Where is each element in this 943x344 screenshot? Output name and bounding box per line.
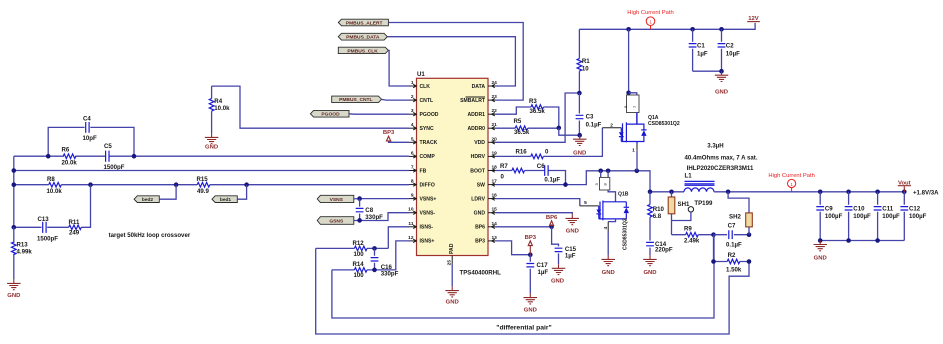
svg-text:R6: R6 bbox=[62, 147, 70, 154]
svg-text:0.1µF: 0.1µF bbox=[586, 121, 602, 128]
svg-text:1: 1 bbox=[649, 20, 652, 25]
svg-text:40.4mOhms max, 7 A sat.: 40.4mOhms max, 7 A sat. bbox=[684, 155, 757, 162]
svg-text:C2: C2 bbox=[726, 42, 734, 49]
transistor Q1B CSD85301Q2 bbox=[580, 205, 599, 207]
capacitor C13 bbox=[43, 222, 46, 233]
svg-text:4.99k: 4.99k bbox=[17, 248, 33, 255]
svg-text:R1: R1 bbox=[582, 58, 590, 65]
svg-text:12: 12 bbox=[408, 235, 414, 241]
svg-text:BP6: BP6 bbox=[546, 215, 558, 221]
wire SW to L1 bbox=[650, 191, 684, 193]
wire (FB line pin 7) bbox=[14, 170, 409, 172]
svg-text:9: 9 bbox=[411, 193, 414, 199]
svg-text:GND: GND bbox=[602, 270, 615, 276]
svg-text:100µF: 100µF bbox=[909, 213, 927, 220]
svg-text:18: 18 bbox=[492, 165, 498, 171]
wire PGOOD bbox=[349, 113, 409, 115]
resistor R3 bbox=[531, 105, 544, 110]
svg-text:330pF: 330pF bbox=[365, 214, 383, 221]
svg-text:ADDR1: ADDR1 bbox=[467, 112, 485, 118]
svg-text:4: 4 bbox=[411, 122, 414, 128]
high current path flag (12V) bbox=[646, 17, 655, 26]
svg-text:PMBUS_CLK: PMBUS_CLK bbox=[347, 48, 378, 54]
wire ADDR0 bbox=[496, 127, 559, 129]
wire VSNS to pin 9 bbox=[354, 198, 409, 200]
wire VDD bbox=[496, 93, 580, 142]
capacitor C4 branch bbox=[48, 127, 134, 156]
svg-text:5: 5 bbox=[584, 200, 587, 206]
resistor R15 bbox=[197, 182, 210, 187]
ground (output caps) bbox=[814, 241, 828, 251]
power port BP3 (pin13) bbox=[529, 246, 531, 255]
svg-text:C10: C10 bbox=[853, 205, 865, 212]
svg-text:10: 10 bbox=[582, 66, 589, 73]
svg-text:10pF: 10pF bbox=[83, 135, 98, 142]
inductor L1 bbox=[684, 188, 714, 192]
capacitor C10 bbox=[846, 190, 851, 195]
svg-text:1.50k: 1.50k bbox=[726, 267, 742, 274]
svg-text:16: 16 bbox=[492, 193, 498, 199]
shunt SH2 bbox=[728, 192, 749, 213]
svg-text:R11: R11 bbox=[69, 219, 80, 226]
svg-text:VSNS-: VSNS- bbox=[420, 211, 436, 217]
svg-text:R13: R13 bbox=[17, 241, 29, 248]
wire (DIFFO line pin 8) bbox=[14, 184, 409, 186]
svg-text:1: 1 bbox=[632, 148, 635, 154]
ground (C1/C2) bbox=[715, 71, 729, 81]
capacitor C5 bbox=[106, 151, 109, 162]
svg-text:19: 19 bbox=[492, 150, 498, 156]
svg-text:GND: GND bbox=[446, 300, 459, 306]
power port BP6 bbox=[550, 221, 554, 226]
svg-text:PMBUS_ALERT: PMBUS_ALERT bbox=[346, 20, 383, 26]
resistor R7 0 ohm bbox=[512, 168, 525, 173]
capacitor C2 bbox=[721, 29, 723, 71]
transistor Q1B package pins 3,8 bbox=[598, 169, 603, 174]
svg-text:100µF: 100µF bbox=[882, 213, 900, 220]
resistor R14 bbox=[354, 268, 367, 273]
svg-text:bed2: bed2 bbox=[142, 197, 154, 203]
svg-text:R12: R12 bbox=[353, 240, 365, 247]
wire ISNS- to R12 line bbox=[388, 227, 409, 249]
svg-text:5: 5 bbox=[411, 136, 414, 142]
resistor R1 bbox=[578, 29, 580, 93]
svg-text:C4: C4 bbox=[83, 115, 91, 122]
ground (PAD) bbox=[445, 287, 459, 297]
wire pin15 GND bbox=[496, 213, 573, 215]
capacitor C7 bbox=[714, 234, 750, 236]
wire L1 to output bbox=[714, 191, 904, 193]
svg-text:R14: R14 bbox=[353, 261, 365, 268]
svg-text:13: 13 bbox=[492, 235, 498, 241]
svg-text:SH1: SH1 bbox=[678, 201, 690, 208]
port GSNS bbox=[317, 217, 354, 225]
port PMBUS_CNTL bbox=[332, 96, 382, 103]
port PMBUS_CLK bbox=[338, 47, 388, 53]
svg-text:4: 4 bbox=[603, 227, 609, 230]
wire PMBUS_DATA to DATA bbox=[387, 37, 515, 86]
wire ISNS+ to R14 line bbox=[375, 241, 410, 270]
svg-text:100: 100 bbox=[354, 272, 365, 279]
ground (pin 15) bbox=[566, 214, 580, 224]
svg-text:High Current Path: High Current Path bbox=[768, 173, 814, 179]
svg-text:R8: R8 bbox=[47, 176, 55, 183]
svg-text:20: 20 bbox=[492, 136, 498, 142]
svg-text:Q1B: Q1B bbox=[618, 191, 629, 197]
wire SYNC bbox=[212, 86, 409, 128]
svg-text:ISNS-: ISNS- bbox=[420, 225, 434, 231]
svg-text:GND: GND bbox=[566, 228, 579, 234]
svg-text:BP3: BP3 bbox=[383, 130, 395, 136]
ground (R13) bbox=[7, 279, 21, 289]
resistor R5 bbox=[515, 126, 528, 131]
net label Vout bbox=[903, 186, 905, 192]
svg-text:1µF: 1µF bbox=[697, 51, 708, 58]
wire (COMP line to pin 6) bbox=[14, 155, 409, 157]
svg-text:7: 7 bbox=[411, 165, 414, 171]
svg-text:High Current Path: High Current Path bbox=[627, 10, 673, 16]
svg-text:GND: GND bbox=[814, 255, 827, 261]
svg-text:15: 15 bbox=[492, 207, 498, 213]
svg-text:target 50kHz loop crossover: target 50kHz loop crossover bbox=[109, 232, 191, 239]
capacitor C14 bbox=[646, 242, 654, 245]
svg-text:2.49k: 2.49k bbox=[684, 237, 700, 244]
wire differential pair outer bbox=[316, 248, 749, 334]
svg-text:220pF: 220pF bbox=[655, 247, 673, 254]
svg-text:ISNS+: ISNS+ bbox=[420, 239, 435, 245]
capacitor C15 bbox=[552, 227, 559, 264]
wire LDRV bbox=[496, 199, 580, 206]
svg-text:R3: R3 bbox=[529, 98, 537, 105]
capacitor C9 bbox=[818, 190, 823, 195]
svg-text:LDRV: LDRV bbox=[471, 196, 485, 202]
transistor Q1A CSD85301Q2 bbox=[602, 127, 621, 129]
svg-text:ADDR0: ADDR0 bbox=[467, 126, 485, 132]
ground (C3) bbox=[573, 135, 587, 145]
svg-text:bed1: bed1 bbox=[220, 197, 232, 203]
svg-text:+1.8V/3A: +1.8V/3A bbox=[913, 190, 939, 197]
resistor R8 bbox=[49, 182, 62, 187]
svg-text:DIFFO: DIFFO bbox=[420, 182, 435, 188]
svg-text:VSNS+: VSNS+ bbox=[420, 196, 437, 202]
svg-text:BP3: BP3 bbox=[525, 235, 537, 241]
svg-text:PMBUS_DATA: PMBUS_DATA bbox=[346, 35, 380, 41]
capacitor C17 bbox=[529, 255, 531, 294]
svg-text:1500pF: 1500pF bbox=[37, 236, 58, 243]
resistor R6 bbox=[63, 154, 76, 159]
svg-text:GND: GND bbox=[524, 307, 537, 313]
svg-text:0: 0 bbox=[501, 174, 505, 181]
svg-text:VDD: VDD bbox=[474, 140, 485, 146]
svg-text:1µF: 1µF bbox=[565, 252, 576, 259]
svg-text:SW: SW bbox=[477, 182, 485, 188]
port PMBUS_DATA bbox=[338, 33, 387, 40]
resistor R10 bbox=[649, 192, 651, 241]
svg-text:GND: GND bbox=[7, 293, 20, 299]
port VSNS bbox=[317, 195, 354, 202]
port PMBUS_ALERT bbox=[338, 19, 388, 26]
wire TRACK bbox=[389, 141, 409, 142]
svg-text:0.1µF: 0.1µF bbox=[544, 177, 560, 184]
port PGOOD bbox=[310, 110, 349, 117]
svg-text:C5: C5 bbox=[104, 143, 112, 150]
wire HDRV bbox=[496, 128, 603, 157]
svg-text:PMBUS_CNTL: PMBUS_CNTL bbox=[339, 97, 372, 103]
svg-text:R10: R10 bbox=[653, 206, 665, 213]
svg-text:L1: L1 bbox=[685, 173, 693, 180]
svg-text:49.9: 49.9 bbox=[197, 188, 209, 195]
svg-text:2: 2 bbox=[610, 122, 613, 128]
svg-text:GND: GND bbox=[474, 211, 486, 217]
svg-text:20.0k: 20.0k bbox=[62, 160, 78, 167]
svg-text:HDRV: HDRV bbox=[471, 154, 486, 160]
svg-text:GND: GND bbox=[551, 278, 564, 284]
capacitor C1 bbox=[692, 29, 694, 71]
wire (COMP net vertical bus) bbox=[13, 156, 15, 227]
svg-text:PGOOD: PGOOD bbox=[321, 112, 340, 118]
test point TP199 bbox=[688, 207, 693, 212]
capacitor C11 bbox=[875, 190, 880, 195]
svg-text:BP3: BP3 bbox=[475, 239, 485, 245]
svg-text:COMP: COMP bbox=[420, 154, 436, 160]
svg-text:TRACK: TRACK bbox=[420, 140, 438, 146]
node bed2 port bbox=[134, 196, 159, 203]
ground (Q1B source) bbox=[602, 255, 616, 265]
svg-text:C17: C17 bbox=[537, 262, 549, 269]
svg-text:U1: U1 bbox=[417, 71, 425, 78]
svg-text:IHLP2020CZER3R3M11: IHLP2020CZER3R3M11 bbox=[687, 165, 754, 172]
resistor R4 bbox=[211, 86, 213, 133]
svg-text:FB: FB bbox=[420, 168, 427, 174]
svg-text:R9: R9 bbox=[684, 226, 692, 233]
svg-text:100µF: 100µF bbox=[825, 213, 843, 220]
svg-text:11: 11 bbox=[408, 221, 413, 227]
svg-text:100: 100 bbox=[354, 251, 365, 258]
wire GSNS to pin 10 bbox=[354, 213, 409, 221]
resistor R9 bbox=[672, 234, 714, 236]
svg-text:C9: C9 bbox=[825, 205, 833, 212]
high current path flag (Vout) bbox=[788, 179, 796, 187]
svg-text:TPS40400RHL: TPS40400RHL bbox=[460, 270, 502, 277]
wire 12V rail bbox=[579, 23, 755, 29]
svg-text:36.5k: 36.5k bbox=[530, 108, 546, 115]
wire BOOT bbox=[496, 171, 566, 185]
svg-text:C6: C6 bbox=[537, 163, 545, 170]
resistor R12 bbox=[354, 246, 367, 251]
svg-text:CSD85301Q2: CSD85301Q2 bbox=[648, 121, 680, 127]
capacitor C16 bbox=[374, 248, 376, 270]
resistor R13 bbox=[13, 227, 15, 279]
op-amp U1 TPS40400RHL controller IC bbox=[417, 78, 489, 255]
svg-text:R16: R16 bbox=[516, 149, 528, 156]
svg-text:GND: GND bbox=[643, 270, 656, 276]
svg-text:TP199: TP199 bbox=[694, 200, 713, 207]
svg-text:0: 0 bbox=[545, 148, 549, 155]
svg-text:R7: R7 bbox=[500, 163, 508, 170]
svg-text:8: 8 bbox=[411, 179, 414, 185]
svg-text:249: 249 bbox=[69, 229, 80, 236]
wire BP3 pin13 bbox=[496, 241, 531, 255]
svg-text:1µF: 1µF bbox=[538, 269, 549, 276]
wire BP6 bbox=[496, 226, 552, 228]
svg-text:C8: C8 bbox=[365, 207, 373, 214]
svg-text:C13: C13 bbox=[38, 216, 50, 223]
svg-text:3: 3 bbox=[411, 108, 414, 114]
svg-text:3.3µH: 3.3µH bbox=[707, 142, 723, 149]
resistor R2 bbox=[714, 235, 750, 262]
power port BP3 (TRACK) bbox=[387, 136, 391, 141]
svg-text:R5: R5 bbox=[514, 118, 522, 125]
svg-text:CNTL: CNTL bbox=[420, 98, 434, 104]
wire PMBUS_ALERT to SMBALRT bbox=[388, 23, 523, 101]
capacitor C3 bbox=[578, 93, 580, 135]
ground (C17) bbox=[524, 294, 538, 304]
wire C1-C2 gnd bus bbox=[693, 70, 722, 72]
svg-text:CSD85301Q2: CSD85301Q2 bbox=[622, 218, 628, 250]
wire R12 line bbox=[316, 247, 389, 249]
shunt SH1 bbox=[671, 192, 673, 197]
ground (R4) bbox=[205, 133, 219, 143]
wire R14 line bbox=[332, 269, 375, 271]
svg-text:22: 22 bbox=[492, 108, 498, 114]
svg-text:GSNS: GSNS bbox=[329, 218, 344, 224]
wire ADDR1 bbox=[496, 107, 559, 128]
svg-text:C12: C12 bbox=[909, 205, 921, 212]
svg-text:PGOOD: PGOOD bbox=[420, 112, 439, 118]
wire CNTL bbox=[382, 98, 409, 101]
transistor Q1A package pins 8,7 bbox=[628, 29, 630, 95]
svg-text:GND: GND bbox=[205, 145, 218, 151]
wire ADDR junction to GND node bbox=[559, 128, 580, 135]
svg-text:PAD: PAD bbox=[449, 243, 455, 254]
svg-text:SH2: SH2 bbox=[729, 214, 741, 221]
svg-text:R15: R15 bbox=[197, 176, 209, 183]
ground (C15) bbox=[552, 264, 566, 274]
svg-text:DATA: DATA bbox=[472, 84, 486, 90]
capacitor C6 bbox=[545, 165, 548, 176]
svg-text:0.1µF: 0.1µF bbox=[726, 241, 742, 248]
node bed1 port bbox=[212, 196, 237, 203]
svg-text:R2: R2 bbox=[728, 252, 736, 259]
svg-text:GND: GND bbox=[573, 151, 586, 157]
svg-text:C11: C11 bbox=[882, 205, 893, 212]
svg-text:10µF: 10µF bbox=[726, 51, 740, 58]
svg-text:100µF: 100µF bbox=[853, 213, 871, 220]
wire output cap gnd bus bbox=[820, 240, 904, 242]
svg-text:6: 6 bbox=[411, 150, 414, 156]
svg-text:2: 2 bbox=[411, 94, 414, 100]
svg-text:SYNC: SYNC bbox=[420, 126, 434, 132]
svg-text:BP6: BP6 bbox=[475, 225, 485, 231]
wire SW net bbox=[496, 171, 651, 192]
svg-text:10.0k: 10.0k bbox=[214, 105, 230, 112]
svg-text:10: 10 bbox=[408, 207, 414, 213]
svg-text:SMBALRT: SMBALRT bbox=[460, 98, 486, 104]
capacitor C8 bbox=[359, 199, 361, 221]
svg-text:17: 17 bbox=[492, 179, 498, 185]
wire (C13/R11 line) bbox=[14, 185, 91, 228]
svg-text:1: 1 bbox=[790, 182, 793, 187]
svg-text:36.5k: 36.5k bbox=[514, 129, 530, 136]
svg-text:1: 1 bbox=[411, 80, 414, 86]
svg-text:330pF: 330pF bbox=[381, 270, 399, 277]
svg-text:21: 21 bbox=[492, 122, 498, 128]
svg-text:CLK: CLK bbox=[420, 84, 431, 90]
svg-text:10.0k: 10.0k bbox=[47, 188, 63, 195]
resistor R11 bbox=[69, 225, 82, 230]
ground (C14) bbox=[643, 255, 657, 265]
svg-text:C1: C1 bbox=[697, 42, 705, 49]
resistor R16 0 ohm bbox=[531, 154, 544, 159]
capacitor C12 bbox=[902, 190, 907, 195]
svg-text:C3: C3 bbox=[586, 113, 594, 120]
svg-text:C7: C7 bbox=[728, 222, 736, 229]
svg-text:24: 24 bbox=[492, 80, 498, 86]
svg-text:BOOT: BOOT bbox=[470, 168, 486, 174]
wire differential pair inner bbox=[332, 235, 714, 318]
svg-text:"differential pair": "differential pair" bbox=[496, 324, 552, 331]
svg-text:23: 23 bbox=[492, 94, 498, 100]
svg-text:3: 3 bbox=[594, 183, 599, 186]
wire PMBUS_CLK to CLK bbox=[388, 50, 409, 86]
svg-text:14: 14 bbox=[492, 221, 498, 227]
svg-text:GND: GND bbox=[715, 90, 728, 96]
svg-text:VSNS: VSNS bbox=[330, 197, 344, 203]
svg-text:6.8: 6.8 bbox=[653, 213, 662, 220]
